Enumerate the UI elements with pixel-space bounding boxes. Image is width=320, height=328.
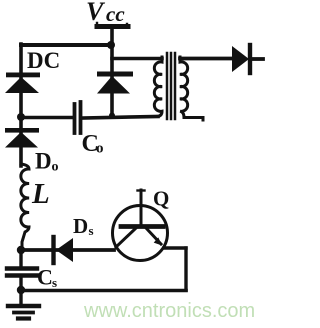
svg-text:o: o (96, 141, 104, 157)
svg-text:s: s (89, 223, 94, 238)
svg-text:www.cntronics.com: www.cntronics.com (83, 300, 255, 322)
svg-text:C: C (37, 265, 53, 290)
svg-text:D: D (35, 149, 52, 174)
svg-text:D: D (73, 214, 88, 238)
svg-text:DC: DC (27, 48, 60, 73)
svg-text:Q: Q (153, 187, 169, 211)
svg-text:s: s (52, 275, 57, 290)
svg-text:cc: cc (106, 2, 125, 26)
svg-text:o: o (52, 160, 59, 175)
svg-text:L: L (31, 178, 50, 210)
svg-text:V: V (86, 0, 106, 26)
